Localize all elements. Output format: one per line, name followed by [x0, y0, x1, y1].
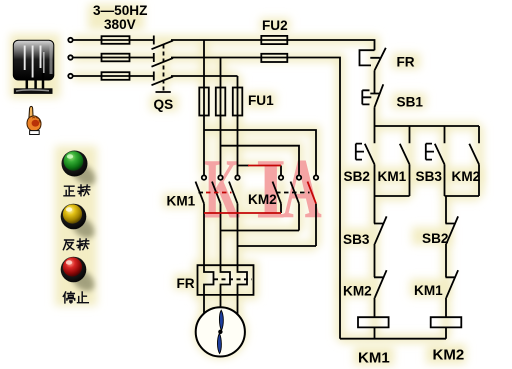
svg-text:KM1: KM1 [414, 283, 443, 298]
svg-text:KM1: KM1 [167, 194, 196, 209]
svg-text:SB3: SB3 [343, 232, 370, 247]
svg-text:SB3: SB3 [416, 169, 443, 184]
svg-text:FR: FR [177, 276, 195, 291]
svg-text:SB1: SB1 [397, 95, 424, 110]
svg-text:KM1: KM1 [378, 169, 407, 184]
svg-text:FU1: FU1 [248, 93, 274, 108]
svg-text:KM1: KM1 [358, 350, 390, 367]
svg-text:QS: QS [154, 97, 174, 112]
svg-text:SB2: SB2 [422, 231, 449, 246]
svg-text:KM2: KM2 [452, 169, 481, 184]
svg-text:FR: FR [397, 55, 415, 70]
svg-text:KM2: KM2 [343, 284, 372, 299]
svg-text:K: K [204, 141, 240, 237]
svg-text:KM2: KM2 [248, 192, 277, 207]
svg-text:KM2: KM2 [433, 347, 465, 364]
svg-text:3—50HZ: 3—50HZ [93, 3, 147, 18]
svg-text:SB2: SB2 [344, 169, 371, 184]
svg-text:FU2: FU2 [262, 18, 288, 33]
svg-text:380V: 380V [104, 17, 136, 32]
